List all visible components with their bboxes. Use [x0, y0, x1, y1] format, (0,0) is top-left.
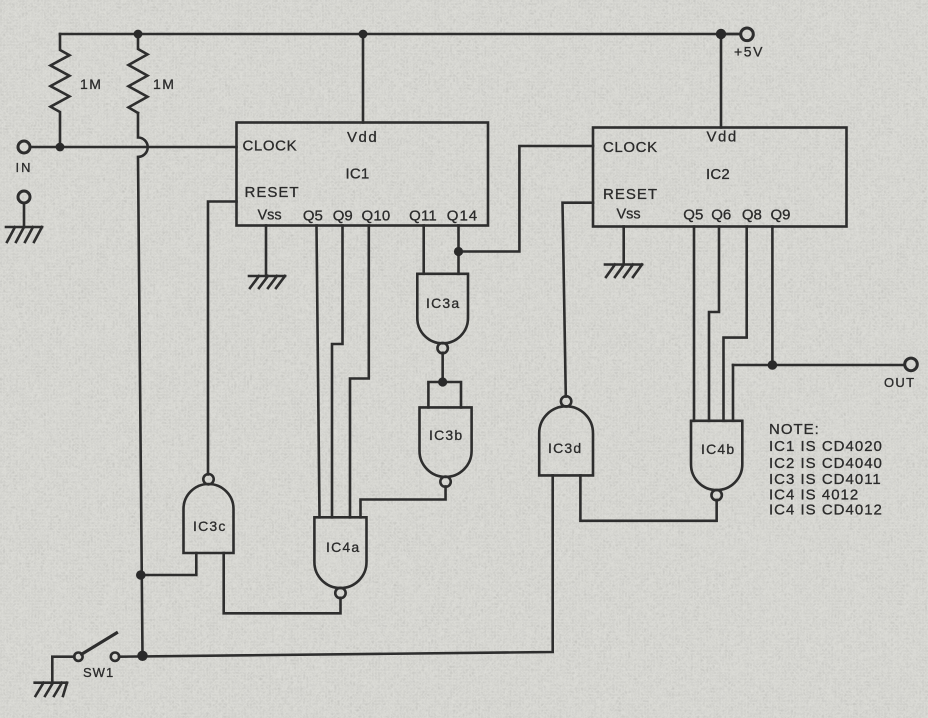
- NAND gate IC3b (points down): [420, 407, 472, 477]
- resistor R2 1M: [129, 34, 148, 113]
- switch SW1: [52, 657, 74, 683]
- svg-text:1M: 1M: [153, 76, 175, 92]
- wire Q8 IC2 to IC4b: [724, 227, 747, 421]
- wire IC3b output to IC4a input: [361, 486, 446, 517]
- svg-text:RESET: RESET: [603, 186, 658, 203]
- node dot rail-Vdd IC1: [359, 30, 368, 39]
- ground symbol (IC2 Vss): [605, 265, 642, 278]
- wire OUT node down to IC4b: [732, 365, 735, 421]
- svg-text:Vdd: Vdd: [707, 129, 738, 146]
- svg-text:Vdd: Vdd: [347, 129, 378, 146]
- wire Q5 IC1 to IC4a: [317, 226, 320, 518]
- wire IC3a output to IC3b tied inputs: [428, 353, 461, 408]
- svg-text:Q5: Q5: [303, 208, 323, 225]
- svg-text:1M: 1M: [80, 76, 102, 92]
- NAND gate IC3c (points up): [203, 474, 213, 484]
- svg-text:Q11: Q11: [409, 208, 437, 225]
- wire IN to CLOCK: [30, 146, 237, 149]
- NAND gate IC4b (points down): [691, 421, 742, 490]
- svg-text:Q8: Q8: [742, 207, 762, 224]
- wire Q10 IC1 to IC4a: [350, 226, 369, 518]
- terminal +5V: [741, 28, 754, 41]
- wire Q6 IC2 to IC4b: [709, 227, 719, 421]
- node dot Q14 branch: [454, 247, 463, 256]
- wire Vdd IC1: [362, 34, 365, 123]
- svg-text:IC3c: IC3c: [193, 518, 227, 534]
- node dot IC3b tied inputs: [438, 377, 447, 386]
- svg-text:CLOCK: CLOCK: [603, 139, 658, 156]
- wire IC2 RESET to IC3d output: [563, 203, 594, 397]
- wire +5V stub: [721, 33, 741, 36]
- svg-text:Q10: Q10: [362, 208, 391, 225]
- ground symbol (IC1 Vss): [249, 276, 285, 288]
- svg-text:CLOCK: CLOCK: [243, 138, 298, 155]
- svg-text:NOTE:: NOTE:: [769, 421, 820, 438]
- terminal IN: [18, 141, 30, 153]
- svg-text:OUT: OUT: [884, 375, 915, 390]
- svg-text:IN: IN: [16, 160, 33, 175]
- terminal ground reference under IN: [18, 191, 30, 203]
- NAND gate IC3a (points down): [417, 274, 468, 344]
- wire Vss IC2 to ground: [622, 227, 625, 265]
- wire IC3d right input from IC4b output: [580, 475, 716, 520]
- svg-text:IC3a: IC3a: [426, 295, 460, 311]
- node dot rail-R2: [134, 30, 143, 39]
- node dot R1-IN: [56, 143, 65, 152]
- ground symbol (input): [6, 227, 42, 242]
- svg-text:Q9: Q9: [333, 208, 353, 225]
- wire Q5 IC2 to IC4b: [693, 227, 696, 421]
- node dot left vertical / bottom rail: [137, 651, 147, 661]
- IC2 CD4040 box: [593, 128, 847, 227]
- node dot Q9-OUT: [768, 360, 778, 370]
- svg-text:IC3b: IC3b: [429, 427, 463, 443]
- wire top +5V rail: [60, 33, 740, 36]
- wire Q14 node to IC2 CLOCK: [459, 146, 594, 252]
- svg-text:Vss: Vss: [617, 207, 641, 223]
- svg-text:IC2: IC2: [706, 166, 730, 183]
- wire OUT: [733, 364, 905, 367]
- svg-text:IC1 IS CD4020: IC1 IS CD4020: [769, 438, 883, 455]
- svg-text:SW1: SW1: [83, 665, 114, 680]
- resistor R1 1M: [51, 34, 70, 147]
- svg-text:Q6: Q6: [711, 207, 731, 224]
- svg-text:Q5: Q5: [683, 207, 703, 224]
- svg-text:RESET: RESET: [245, 184, 300, 201]
- NAND gate IC4a (points down): [314, 517, 366, 588]
- wire Q11 IC1 to IC3a: [422, 226, 425, 274]
- wire Vss IC1 to ground: [265, 226, 268, 277]
- node dot left vertical / IC3c input: [136, 570, 146, 580]
- svg-text:IC4b: IC4b: [701, 441, 735, 457]
- svg-text:IC3d: IC3d: [548, 440, 582, 456]
- svg-text:IC4 IS CD4012: IC4 IS CD4012: [769, 502, 883, 519]
- svg-text:IC2 IS CD4040: IC2 IS CD4040: [769, 455, 883, 472]
- wire IC3c right input from IC4a output: [224, 553, 341, 613]
- svg-text:+5V: +5V: [734, 44, 764, 60]
- svg-text:IC3 IS CD4011: IC3 IS CD4011: [769, 471, 882, 488]
- ground symbol (SW1): [35, 683, 67, 696]
- svg-text:Vss: Vss: [258, 208, 282, 224]
- wire IC3d left input to bottom rail: [119, 475, 553, 656]
- svg-text:Q14: Q14: [447, 208, 478, 225]
- wire Vdd IC2: [720, 34, 723, 128]
- wire gnd stub: [23, 203, 26, 227]
- IC1 CD4020 box: [237, 123, 489, 226]
- node dot rail-Vdd IC2: [716, 29, 726, 39]
- wire Q9 IC1 to IC4a: [332, 226, 343, 518]
- NAND gate IC3d (points up): [561, 396, 571, 406]
- wire left vertical from R2 down to bottom rail, hops around IN wire: [138, 113, 148, 656]
- svg-text:Q9: Q9: [771, 207, 791, 224]
- wire Q14 IC1 to IC3a: [457, 226, 460, 274]
- wire Q9 IC2 to OUT node: [771, 227, 774, 366]
- wire IC3c left input: [141, 553, 197, 575]
- svg-text:IC1: IC1: [346, 166, 370, 183]
- terminal OUT: [905, 358, 918, 371]
- svg-text:IC4a: IC4a: [326, 539, 360, 555]
- wire IC1 RESET: [208, 202, 237, 475]
